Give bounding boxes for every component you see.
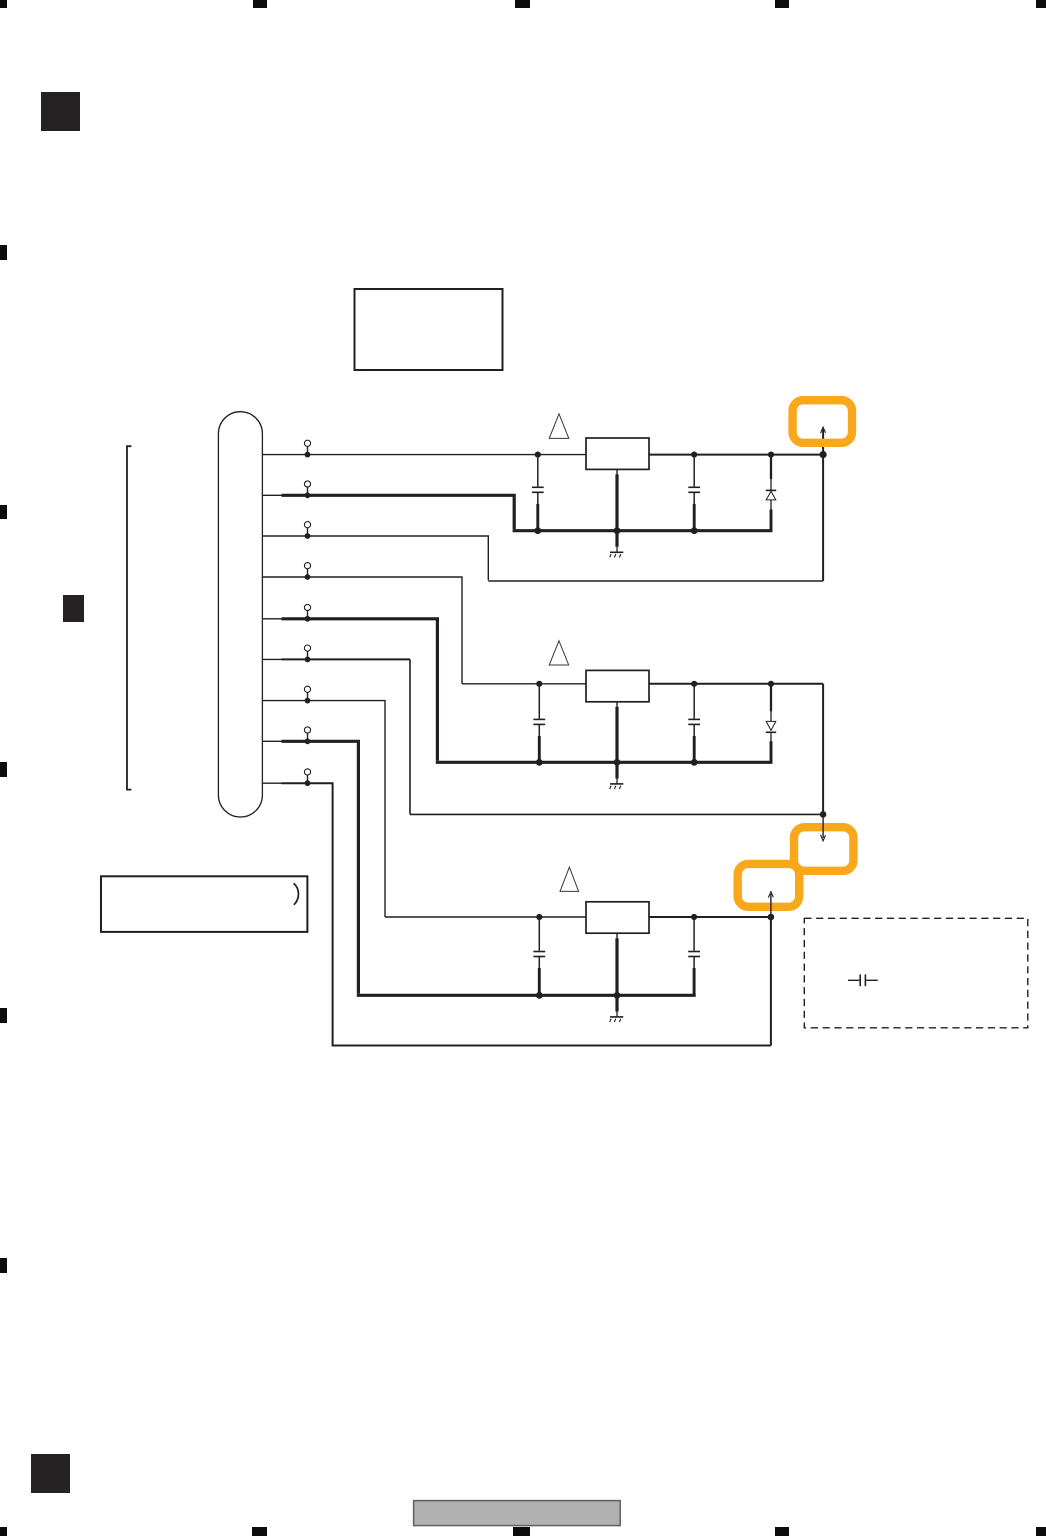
pin 9 wire (U3 output return) xyxy=(262,782,281,784)
U1 output wire xyxy=(649,454,823,456)
black square marker (bottom left) xyxy=(31,1454,70,1493)
wire y814 (U2 output to pin 6) xyxy=(410,813,823,815)
U2 output wire xyxy=(649,683,823,685)
pin 4 wire (to regulator U2 input) xyxy=(262,577,462,684)
pin 7 wire (to regulator U3 input) xyxy=(262,701,385,917)
note box (empty) xyxy=(355,289,503,370)
test point TP4 xyxy=(304,563,310,580)
pin 6 wire (U2 output return) xyxy=(262,658,281,660)
bracket (left) xyxy=(127,446,131,789)
black square marker (top left) xyxy=(41,92,80,131)
arrow into tag 3 xyxy=(770,894,772,917)
warning triangle 2 xyxy=(549,641,569,665)
test point TP8 xyxy=(304,727,310,744)
wire y1045 (bottom return) xyxy=(332,1045,771,1047)
voltage regulator U3 xyxy=(586,902,649,933)
warning triangle 3 xyxy=(560,867,579,891)
test point TP9 xyxy=(304,769,310,786)
capacitor symbol inside dashed box xyxy=(848,974,878,986)
footer gray box xyxy=(414,1501,621,1526)
black square marker (left middle) xyxy=(63,595,84,622)
capacitor CU3a xyxy=(533,917,545,995)
junction dots U1 xyxy=(534,451,826,534)
ground symbol xyxy=(610,1017,624,1022)
capacitor CU3b xyxy=(688,917,700,995)
highlight tag (U3 output) xyxy=(738,864,800,907)
pin 8 wire (ground return, thick) xyxy=(262,740,281,742)
pin 5 wire (ground return, thick) xyxy=(262,618,281,620)
wire up to U3 output xyxy=(770,917,772,1046)
ground symbol xyxy=(610,552,624,557)
test point TP6 xyxy=(304,645,310,662)
pin 1 wire (to regulator U1 input) xyxy=(262,454,586,456)
U3 output wire xyxy=(649,916,771,918)
ground rail of U2 xyxy=(436,761,773,764)
dashed detail box xyxy=(804,918,1028,1028)
warning triangle 1 xyxy=(549,414,569,439)
test point TP7 xyxy=(304,686,310,703)
closing parenthesis glyph xyxy=(294,883,299,905)
voltage regulator U2 xyxy=(586,670,649,701)
label box (bottom left, empty) xyxy=(101,876,307,932)
capacitor CU1a xyxy=(532,455,544,531)
connector J1 (pill body) xyxy=(218,412,262,817)
capacitor CU1b xyxy=(688,455,700,531)
pin 2 wire (ground return, thick) xyxy=(262,494,281,496)
ground symbol xyxy=(610,784,624,789)
voltage regulator U1 xyxy=(586,438,649,469)
ground pin of U2 xyxy=(616,702,618,784)
junction dots U3 xyxy=(536,914,774,999)
arrow into tag 1 xyxy=(821,427,826,433)
wire to tag 1 xyxy=(822,429,824,581)
highlight tag (U1 output) xyxy=(793,400,852,443)
test point TP1 xyxy=(304,440,310,457)
wire down to junction y814 xyxy=(822,684,824,815)
ground rail of U3 xyxy=(357,994,696,997)
ground pin of U1 xyxy=(616,469,618,552)
highlight tag (U2 output) xyxy=(794,827,854,871)
ground pin of U3 xyxy=(616,933,618,1017)
test point TP5 xyxy=(304,604,310,621)
test point TP2 xyxy=(304,481,310,498)
zener diode DU2 xyxy=(766,684,776,763)
wire y581 (U1 output to pin 3) xyxy=(488,580,823,582)
capacitor CU2b xyxy=(688,684,700,763)
test point TP3 xyxy=(304,522,310,539)
arrow into tag 2 xyxy=(822,814,824,838)
pin 3 wire (U1 output return) xyxy=(262,536,488,580)
capacitor CU2a xyxy=(533,684,545,763)
zener diode DU1 xyxy=(766,455,776,531)
ground rail of U1 xyxy=(513,529,773,532)
junction dots U2 xyxy=(536,681,827,818)
